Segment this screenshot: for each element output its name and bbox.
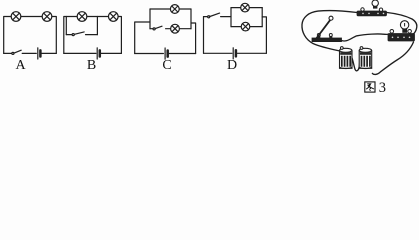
svg-text:A: A: [15, 58, 26, 73]
battery C: [165, 48, 168, 59]
lamp A-L2: [42, 12, 52, 22]
lamp C-L1: [170, 5, 179, 14]
lamp A-L1: [11, 12, 21, 22]
wire D parallel rails: [231, 8, 262, 27]
wire circuit D outer loop: [204, 17, 267, 54]
switch A: [12, 50, 21, 54]
switch B: [72, 32, 84, 36]
lamp C-L2: [171, 24, 180, 33]
wire fig3 cell link: [352, 56, 361, 71]
battery D: [233, 48, 236, 59]
svg-text:3: 3: [379, 80, 386, 95]
lamp L1 in socket (fig3 top): [357, 0, 387, 16]
switch C: [153, 26, 162, 30]
lamp D-L2: [241, 22, 250, 31]
wire B short-circuit branch: [66, 17, 97, 35]
battery A: [38, 48, 41, 59]
wire circuit B outer loop: [64, 17, 122, 54]
wire circuit A loop: [4, 17, 57, 54]
svg-text:C: C: [162, 58, 171, 73]
lamp B-L2: [109, 12, 119, 22]
label fig3 caption (hanzi drawn as vectors): [365, 82, 375, 92]
battery B: [97, 48, 100, 59]
lamp B-L1: [77, 12, 87, 22]
wire C parallel rails: [150, 9, 191, 29]
svg-text:B: B: [87, 58, 96, 73]
battery cell 1 (fig3): [340, 47, 353, 69]
switch S (knife switch, fig3): [312, 16, 342, 41]
wire fig3 right swoop: [372, 42, 413, 74]
wire fig3 middle connector: [342, 34, 390, 41]
lamp L2 in socket (fig3 right): [388, 21, 415, 41]
svg-text:D: D: [227, 58, 237, 73]
wire circuit C outer loop: [135, 22, 196, 54]
lamp D-L1: [241, 3, 250, 12]
switch D: [208, 13, 220, 18]
battery cell 2 (fig3): [359, 47, 372, 69]
wire fig3 right curl: [387, 13, 417, 35]
wire fig3 top-left loop: [302, 11, 357, 51]
